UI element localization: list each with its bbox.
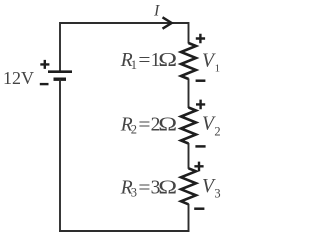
svg-text:1: 1 [215, 63, 221, 75]
plus sign V1 [196, 34, 205, 44]
resistor label R2=2ohm [120, 113, 177, 136]
minus sign V1 [196, 79, 206, 82]
voltage label V2 [202, 113, 221, 138]
svg-text:=: = [138, 50, 150, 71]
wire left upper (top node to battery) [59, 22, 61, 71]
wire left lower (battery to bottom node) [59, 79, 61, 232]
svg-text:=: = [138, 115, 150, 136]
svg-text:Ω: Ω [158, 49, 177, 71]
battery 12V long plate (+) [48, 70, 72, 73]
svg-text:=: = [138, 177, 150, 198]
resistor R1 zigzag [181, 43, 196, 79]
resistor label R3=3ohm [120, 176, 177, 199]
svg-text:2: 2 [214, 124, 220, 138]
resistor label R1=1ohm [120, 49, 177, 72]
voltage label V3 [202, 176, 221, 201]
wire right (R2 to R3) [188, 143, 190, 169]
wire right (R3 to bottom corner) [188, 204, 190, 232]
battery minus sign [40, 83, 49, 85]
wire bottom [59, 230, 190, 232]
svg-text:Ω: Ω [158, 176, 177, 198]
resistor R3 zigzag [181, 168, 196, 204]
svg-text:1: 1 [131, 58, 137, 72]
plus sign V2 [196, 100, 205, 110]
minus sign V3 [194, 207, 204, 210]
svg-text:12V: 12V [3, 68, 34, 88]
wire right (top corner to R1) [188, 22, 190, 44]
svg-text:3: 3 [131, 185, 137, 199]
resistor R2 zigzag [181, 108, 196, 144]
minus sign V2 [195, 145, 205, 148]
current arrow I [163, 17, 172, 28]
plus sign V3 [194, 162, 203, 172]
wire top (from battery + to R1 top) [60, 22, 189, 24]
voltage label V1 [202, 51, 220, 75]
battery 12V short plate (-) [54, 77, 67, 80]
svg-text:I: I [153, 2, 160, 19]
svg-text:2: 2 [131, 123, 137, 137]
svg-text:Ω: Ω [158, 113, 177, 135]
battery plus sign [40, 60, 49, 69]
wire right (R1 to R2) [188, 79, 190, 109]
svg-text:3: 3 [214, 187, 220, 201]
